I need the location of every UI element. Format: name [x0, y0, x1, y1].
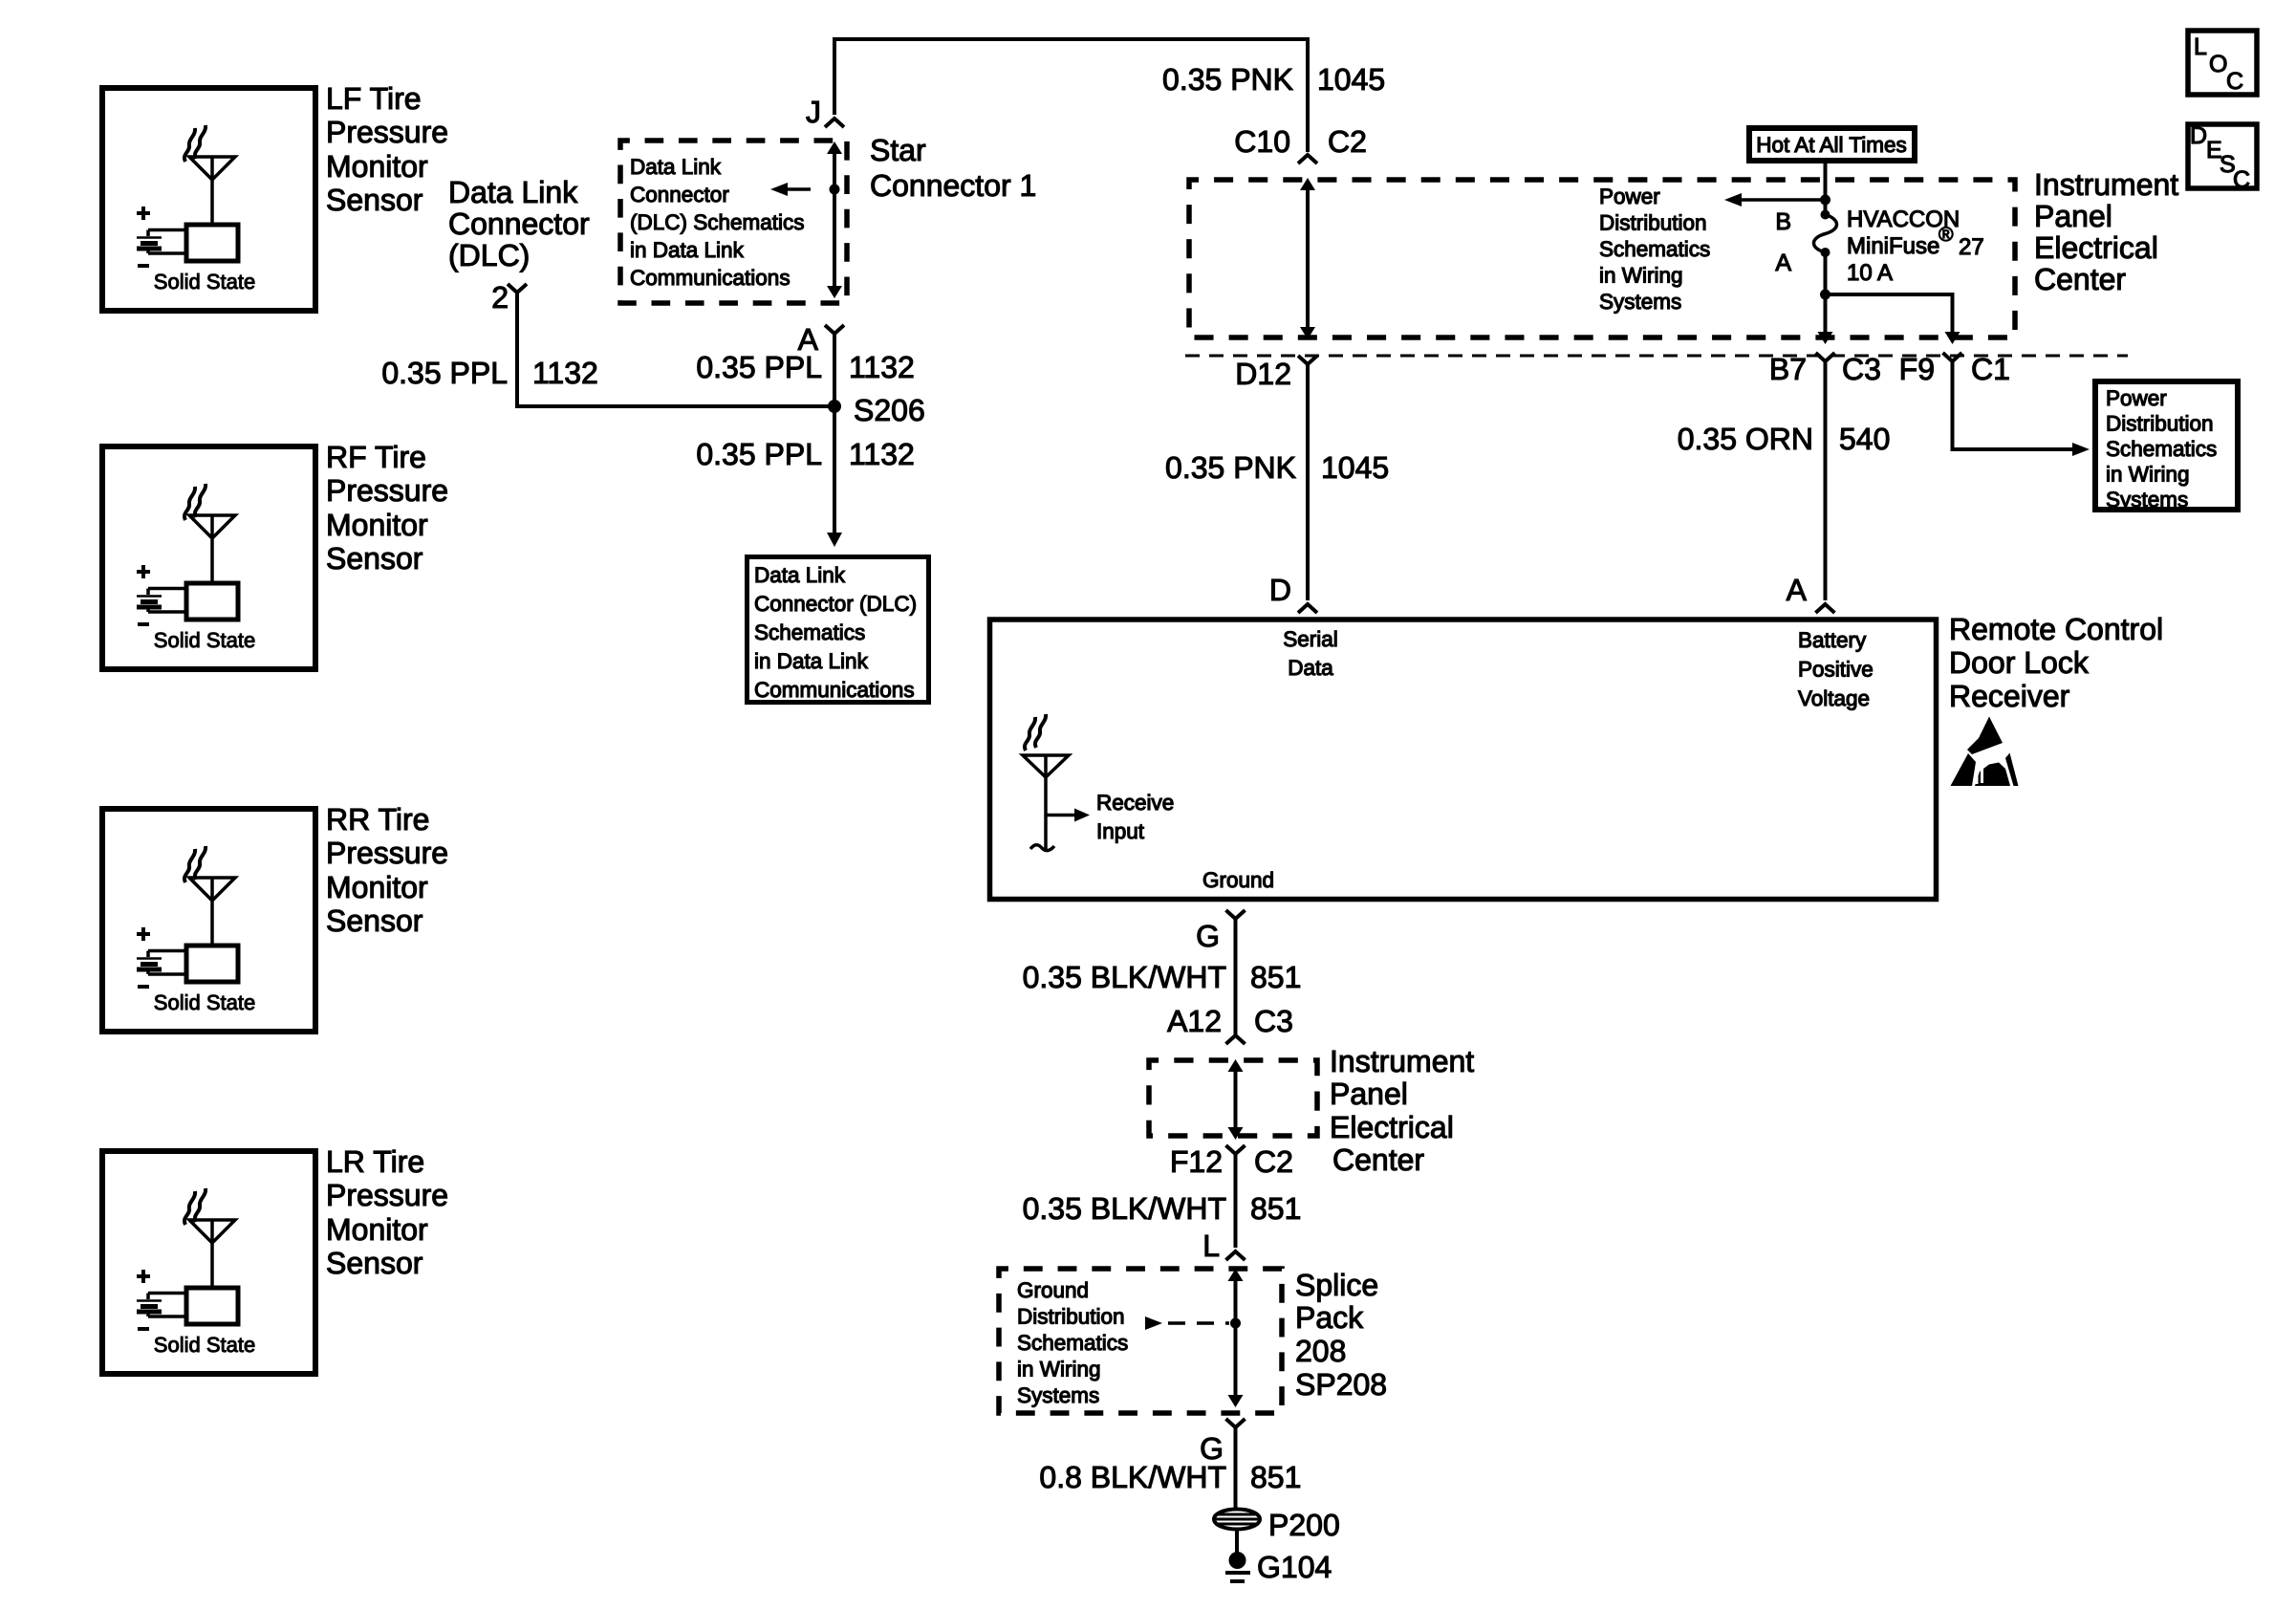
- svg-text:Systems: Systems: [1599, 290, 1681, 314]
- svg-text:Monitor: Monitor: [326, 508, 428, 542]
- svg-text:Pressure: Pressure: [326, 1178, 448, 1212]
- connector G below splice: [1226, 1419, 1245, 1427]
- Splice Pack dashed box: [999, 1269, 1282, 1413]
- svg-text:0.35 PNK: 0.35 PNK: [1162, 62, 1293, 97]
- feed arrow left: [1742, 198, 1825, 202]
- svg-text:C: C: [2233, 166, 2250, 193]
- connector J: [825, 119, 844, 127]
- svg-text:D: D: [1269, 573, 1291, 607]
- star connector dashed box: [620, 141, 847, 303]
- antenna ground squiggle: [1030, 845, 1054, 851]
- svg-text:A: A: [1787, 573, 1808, 607]
- svg-text:MiniFuse: MiniFuse: [1847, 233, 1939, 259]
- branch wire to C1: [1826, 294, 1953, 335]
- svg-text:Serial: Serial: [1283, 627, 1338, 651]
- svg-text:0.35 PPL: 0.35 PPL: [696, 437, 822, 471]
- svg-text:Hot At All Times: Hot At All Times: [1756, 133, 1907, 157]
- svg-text:(DLC) Schematics: (DLC) Schematics: [630, 210, 805, 234]
- svg-text:J: J: [806, 95, 821, 129]
- svg-text:D12: D12: [1235, 357, 1291, 391]
- svg-text:Monitor: Monitor: [326, 149, 428, 184]
- svg-text:Connector (DLC): Connector (DLC): [754, 592, 917, 616]
- svg-text:Star: Star: [870, 133, 926, 167]
- splice ref arrow: [1145, 1316, 1162, 1330]
- svg-text:Instrument: Instrument: [1330, 1044, 1474, 1078]
- svg-text:Panel: Panel: [1330, 1077, 1408, 1111]
- svg-text:L: L: [2194, 33, 2207, 60]
- svg-text:Sensor: Sensor: [326, 183, 423, 217]
- Power Distribution Schematics box (solid right): [2095, 381, 2238, 510]
- feed dot: [1820, 195, 1830, 206]
- connector B7: [1816, 353, 1835, 361]
- svg-text:Receiver: Receiver: [1949, 679, 2070, 713]
- svg-text:Battery: Battery: [1798, 628, 1867, 652]
- svg-text:Power: Power: [2106, 386, 2167, 410]
- svg-text:Pressure: Pressure: [326, 836, 448, 870]
- svg-text:C: C: [2226, 68, 2243, 95]
- connector C10/C2: [1298, 155, 1317, 163]
- svg-text:Connector 1: Connector 1: [870, 168, 1036, 203]
- connector D: [1298, 604, 1317, 613]
- svg-text:O: O: [2209, 51, 2227, 77]
- svg-text:Ground: Ground: [1202, 868, 1274, 892]
- svg-text:Electrical: Electrical: [2034, 230, 2158, 265]
- top wire J to C2: [834, 39, 1308, 152]
- svg-text:Schematics: Schematics: [1599, 237, 1710, 261]
- arrow down (star box bottom): [827, 286, 842, 298]
- svg-text:Data Link: Data Link: [630, 155, 722, 179]
- RF Tire Pressure Monitor Sensor: [102, 446, 315, 669]
- svg-text:Door Lock: Door Lock: [1949, 645, 2090, 680]
- wire F12 to L: [1234, 1154, 1238, 1248]
- DESC box: [2188, 124, 2257, 188]
- wire G to A12: [1234, 919, 1238, 1034]
- wire through splice pack: [1234, 1278, 1238, 1396]
- DLC schematics box (solid): [747, 557, 929, 703]
- RR Tire Pressure Monitor Sensor: [102, 809, 315, 1032]
- svg-text:Sensor: Sensor: [326, 541, 423, 576]
- svg-text:A12: A12: [1167, 1004, 1222, 1038]
- svg-text:0.35 ORN: 0.35 ORN: [1678, 422, 1813, 456]
- LOC box: [2188, 31, 2257, 95]
- svg-text:Schematics: Schematics: [1017, 1331, 1128, 1355]
- arrow down F9: [1945, 332, 1960, 344]
- wire G to P200: [1234, 1427, 1238, 1509]
- svg-text:Systems: Systems: [2106, 488, 2188, 511]
- svg-text:Monitor: Monitor: [326, 1212, 428, 1247]
- svg-text:B7: B7: [1769, 352, 1807, 386]
- svg-text:in Wiring: in Wiring: [1599, 264, 1683, 288]
- connector C1: [1943, 353, 1962, 361]
- svg-text:1045: 1045: [1321, 450, 1389, 485]
- wire DLC pin2 to S206: [517, 293, 829, 406]
- svg-text:Splice: Splice: [1295, 1268, 1378, 1302]
- svg-text:Communications: Communications: [630, 266, 791, 290]
- svg-text:0.8 BLK/WHT: 0.8 BLK/WHT: [1039, 1460, 1226, 1494]
- svg-text:Distribution: Distribution: [2106, 412, 2214, 436]
- svg-text:2: 2: [491, 280, 509, 315]
- svg-text:SP208: SP208: [1295, 1367, 1387, 1402]
- svg-text:851: 851: [1250, 960, 1301, 994]
- svg-text:C3: C3: [1842, 352, 1881, 386]
- wire A to S206: [833, 334, 836, 538]
- wire D12 down to receiver: [1306, 364, 1310, 600]
- ground G104: [1229, 1552, 1246, 1569]
- splice S206: [828, 400, 841, 413]
- svg-text:27: 27: [1959, 234, 1984, 260]
- svg-text:C10: C10: [1234, 124, 1290, 159]
- svg-text:1132: 1132: [849, 437, 915, 471]
- svg-text:Pressure: Pressure: [326, 115, 448, 149]
- svg-text:LF Tire: LF Tire: [326, 81, 422, 116]
- svg-text:F12: F12: [1170, 1144, 1223, 1179]
- LF Tire Pressure Monitor Sensor: [102, 88, 315, 311]
- svg-text:Schematics: Schematics: [2106, 437, 2217, 461]
- wire inside star box: [833, 153, 836, 287]
- svg-text:P200: P200: [1268, 1508, 1340, 1542]
- Hot At All Times box: [1749, 128, 1915, 161]
- svg-text:1132: 1132: [849, 350, 915, 384]
- receive input branch: [1046, 814, 1076, 817]
- receiver antenna: [1023, 755, 1069, 777]
- wire hot to fuse: [1824, 163, 1828, 212]
- connector A receiver: [1815, 604, 1834, 613]
- Instrument Panel Electrical Center dashed box (lower): [1149, 1060, 1317, 1136]
- wire B7 down to receiver A: [1824, 361, 1828, 600]
- svg-text:A: A: [1775, 250, 1791, 276]
- svg-text:RF Tire: RF Tire: [326, 440, 426, 474]
- svg-text:C2: C2: [1328, 124, 1367, 159]
- svg-text:Center: Center: [2034, 262, 2126, 296]
- svg-text:0.35 BLK/WHT: 0.35 BLK/WHT: [1023, 960, 1226, 994]
- wire fuse down: [1824, 252, 1828, 335]
- svg-text:B: B: [1775, 208, 1791, 235]
- svg-text:0.35 PPL: 0.35 PPL: [381, 356, 508, 390]
- svg-text:(DLC): (DLC): [448, 238, 530, 272]
- svg-text:C3: C3: [1254, 1004, 1293, 1038]
- svg-text:in Wiring: in Wiring: [1017, 1358, 1101, 1382]
- arrow into DLC box: [827, 533, 842, 547]
- arrow down IPEC lower: [1228, 1127, 1244, 1140]
- svg-text:Data Link: Data Link: [448, 175, 578, 209]
- thin dashed connector line under IPEC: [1185, 355, 2128, 358]
- Remote Control Door Lock Receiver box: [990, 620, 1937, 900]
- arrow right into power dist box: [2072, 443, 2090, 456]
- branch arrow left in star box: [788, 187, 811, 191]
- arrow up splice: [1228, 1269, 1244, 1281]
- svg-text:in Data Link: in Data Link: [754, 649, 869, 673]
- arrow up IPEC lower: [1228, 1059, 1244, 1072]
- svg-text:Input: Input: [1096, 819, 1145, 843]
- svg-text:in Data Link: in Data Link: [630, 238, 745, 262]
- arrow down splice: [1228, 1395, 1244, 1407]
- svg-text:G: G: [1196, 919, 1220, 953]
- svg-text:Data Link: Data Link: [754, 563, 846, 587]
- fuse HVACCON MiniFuse 27: [1821, 210, 1830, 220]
- svg-text:Power: Power: [1599, 185, 1660, 208]
- connector G below receiver: [1226, 910, 1245, 919]
- Instrument Panel Electrical Center dashed box (top): [1189, 180, 2015, 337]
- svg-text:Instrument: Instrument: [2034, 167, 2178, 202]
- svg-text:LR Tire: LR Tire: [326, 1144, 424, 1179]
- arrow down IPEC left wire: [1300, 327, 1315, 339]
- connector F12/C2: [1226, 1145, 1245, 1154]
- DLC pin 2 connector: [508, 284, 527, 293]
- svg-text:540: 540: [1839, 422, 1890, 456]
- svg-text:Connector: Connector: [448, 207, 590, 241]
- svg-text:10 A: 10 A: [1847, 260, 1893, 286]
- svg-text:D: D: [2190, 122, 2207, 149]
- svg-text:C2: C2: [1254, 1144, 1293, 1179]
- svg-text:Connector: Connector: [630, 183, 729, 207]
- svg-text:in Wiring: in Wiring: [2106, 463, 2190, 487]
- svg-text:Panel: Panel: [2034, 199, 2112, 233]
- connector A12/C3: [1226, 1035, 1245, 1044]
- svg-text:RR Tire: RR Tire: [326, 802, 429, 837]
- svg-text:1132: 1132: [532, 356, 598, 390]
- svg-text:Pressure: Pressure: [326, 473, 448, 508]
- wire C1 to power dist box: [1953, 361, 2073, 449]
- svg-text:851: 851: [1250, 1460, 1301, 1494]
- svg-text:1045: 1045: [1317, 62, 1385, 97]
- svg-text:851: 851: [1250, 1191, 1301, 1226]
- wire P200 to G104: [1235, 1529, 1239, 1554]
- connector D12: [1298, 356, 1317, 364]
- arrow up IPEC left wire: [1300, 178, 1315, 190]
- splice dot: [1230, 1318, 1241, 1329]
- svg-text:0.35 PPL: 0.35 PPL: [696, 350, 822, 384]
- svg-text:L: L: [1202, 1229, 1220, 1263]
- svg-text:Communications: Communications: [754, 678, 915, 702]
- svg-text:Ground: Ground: [1017, 1278, 1089, 1302]
- P200 grommet: [1214, 1510, 1260, 1530]
- branch dot below fuse: [1820, 290, 1830, 300]
- svg-text:Sensor: Sensor: [326, 903, 423, 938]
- svg-text:G104: G104: [1257, 1550, 1332, 1584]
- svg-text:Systems: Systems: [1017, 1383, 1099, 1407]
- svg-text:208: 208: [1295, 1334, 1346, 1368]
- svg-text:Receive: Receive: [1096, 791, 1174, 815]
- connector L: [1226, 1251, 1245, 1260]
- arrow down B7: [1818, 332, 1833, 344]
- svg-text:Positive: Positive: [1798, 658, 1874, 682]
- svg-text:Sensor: Sensor: [326, 1246, 423, 1280]
- svg-text:®: ®: [1939, 224, 1954, 246]
- arrow up (star box top): [827, 141, 842, 154]
- svg-text:0.35 PNK: 0.35 PNK: [1165, 450, 1296, 485]
- svg-text:Remote Control: Remote Control: [1949, 612, 2163, 646]
- svg-text:Distribution: Distribution: [1599, 211, 1707, 235]
- connector A: [825, 325, 844, 334]
- svg-text:Voltage: Voltage: [1798, 686, 1870, 710]
- svg-text:S206: S206: [854, 393, 925, 427]
- svg-text:Schematics: Schematics: [754, 620, 865, 644]
- svg-text:Center: Center: [1332, 1142, 1424, 1177]
- svg-text:0.35 BLK/WHT: 0.35 BLK/WHT: [1023, 1191, 1226, 1226]
- svg-text:Electrical: Electrical: [1330, 1110, 1454, 1144]
- wire C2 through IPEC: [1306, 187, 1310, 328]
- branch dot in star box: [830, 185, 840, 195]
- LR Tire Pressure Monitor Sensor: [102, 1151, 315, 1374]
- svg-text:Monitor: Monitor: [326, 870, 428, 904]
- ESD symbol: [1951, 717, 2019, 787]
- svg-text:Pack: Pack: [1295, 1300, 1364, 1335]
- svg-text:Data: Data: [1288, 656, 1333, 680]
- wire through IPEC lower: [1234, 1069, 1238, 1128]
- svg-text:F9: F9: [1899, 352, 1935, 386]
- svg-text:C1: C1: [1971, 352, 2010, 386]
- svg-text:Distribution: Distribution: [1017, 1305, 1125, 1329]
